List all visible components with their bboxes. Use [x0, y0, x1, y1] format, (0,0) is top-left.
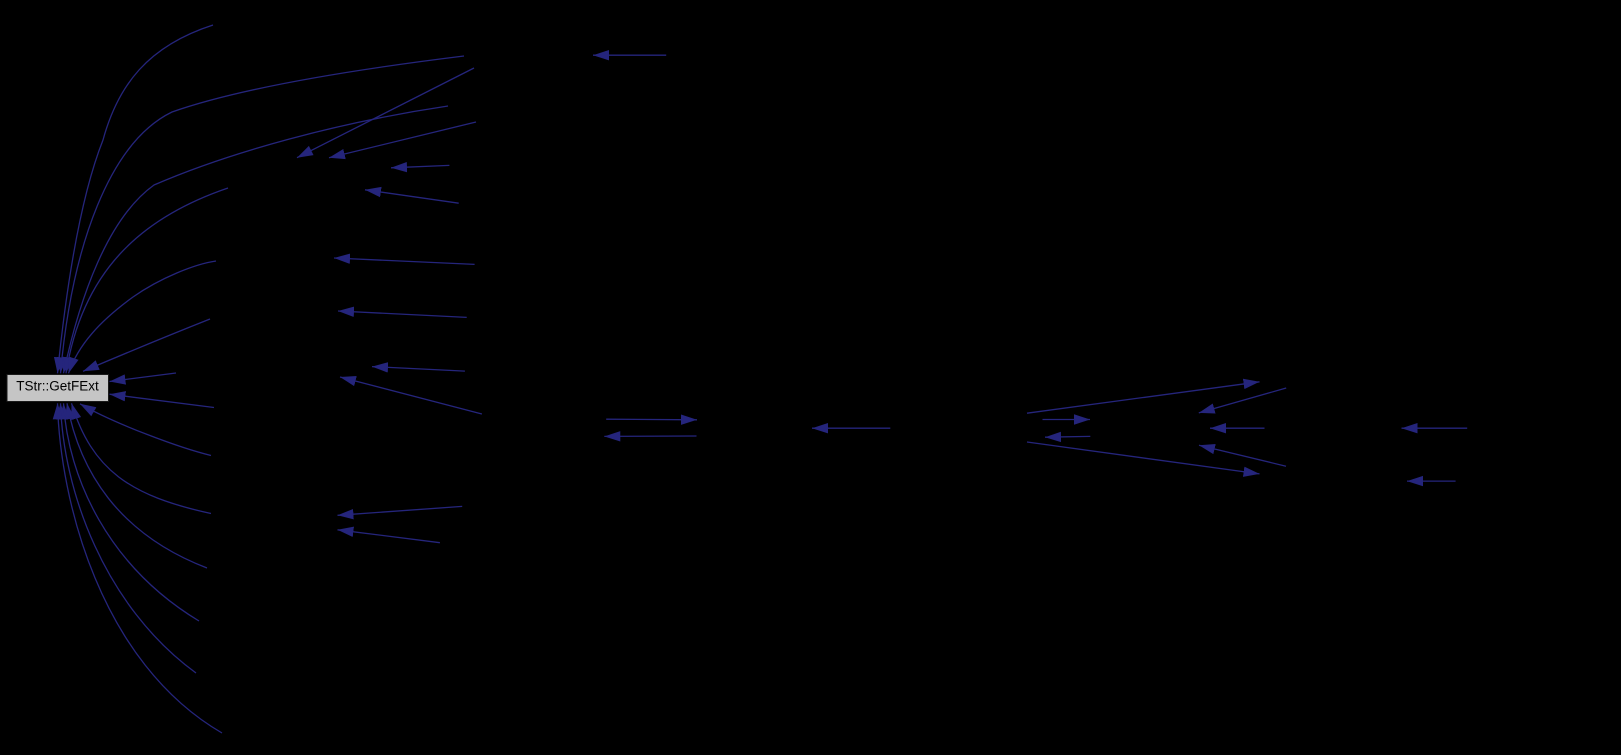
- edge U2 caller curve into node: [61, 56, 465, 373]
- edge E1 long right-pointing: [1027, 382, 1260, 413]
- edge G col3 to col2: [365, 190, 459, 203]
- edge I col3 to col2: [338, 311, 467, 317]
- edge E2 into col right: [1199, 388, 1286, 413]
- edge F2 far right arrow: [1407, 480, 1456, 482]
- edge C col3 to col2 long diagonal: [297, 68, 474, 158]
- edge L1 mid arrow: [812, 427, 890, 429]
- edge D2 caller curve into node bottom: [72, 403, 212, 513]
- edge K col3 to col2: [340, 377, 482, 414]
- edge D6 caller curve into node bottom: [58, 403, 223, 733]
- edge E3 horizontal: [1210, 427, 1265, 429]
- edge E5 long right-pointing: [1027, 442, 1260, 474]
- edge H col3 to col2: [334, 258, 475, 264]
- edge F col3 to col2 horizontal: [391, 165, 449, 167]
- edge C2a col3 to col2 lower: [338, 506, 463, 515]
- edge R2 short caller into node right edge: [110, 394, 215, 407]
- edge F1 far right arrow: [1402, 427, 1468, 429]
- edge U6 caller diagonal into node top: [83, 319, 210, 371]
- edge BD2 bidirectional left: [604, 435, 696, 437]
- node TStr::GetFExt: [7, 375, 109, 402]
- edge U4 caller curve into node: [66, 188, 228, 373]
- edge U5 caller curve into node: [69, 261, 217, 373]
- edge BD3a bidirectional right: [1043, 419, 1091, 421]
- svg-text:TStr::GetFExt: TStr::GetFExt: [16, 379, 99, 394]
- edge J col3 to col2: [372, 367, 465, 372]
- edge U3 caller curve into node: [64, 106, 449, 373]
- edge E4 into col right: [1199, 445, 1286, 466]
- edge D3 caller curve into node bottom: [67, 403, 207, 568]
- edge D1 caller diagonal into node bottom: [80, 404, 211, 456]
- edge R1 short caller into node right edge: [110, 373, 177, 382]
- edge E col3 to col2: [329, 122, 476, 158]
- edge T1 top arrow: [593, 54, 666, 56]
- edge BD1 bidirectional right: [606, 418, 697, 421]
- edge D5 caller curve into node bottom: [61, 403, 197, 673]
- edge D4 caller curve into node bottom: [64, 403, 200, 621]
- edge C2b col3 to col2 lower: [338, 530, 440, 543]
- edge BD3b bidirectional left: [1045, 435, 1090, 438]
- edge U1 caller curve top-most into node: [58, 25, 214, 373]
